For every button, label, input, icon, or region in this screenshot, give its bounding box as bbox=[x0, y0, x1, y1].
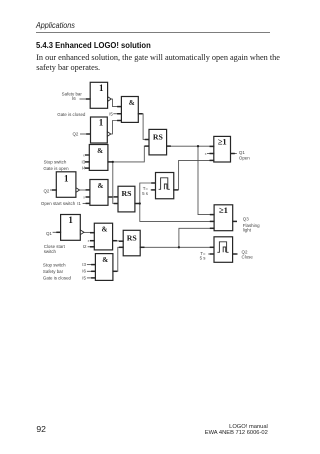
svg-text:&: & bbox=[129, 99, 135, 107]
svg-text:&: & bbox=[97, 147, 103, 155]
wire U3 output to U2 input 3 bbox=[110, 121, 121, 135]
footer manual title bbox=[205, 425, 268, 437]
wire U6 output to Q1 bbox=[231, 153, 237, 155]
svg-text:x: x bbox=[83, 195, 85, 199]
wire I1 to U8 bbox=[83, 202, 90, 204]
wire Q2 to U3 bbox=[80, 133, 91, 135]
svg-text:RS: RS bbox=[127, 233, 137, 242]
parameter label T1 bbox=[142, 186, 149, 196]
input label Gate is open I4 bbox=[43, 166, 86, 171]
node at U9 output branch bbox=[139, 202, 141, 204]
body paragraph bbox=[36, 53, 280, 72]
input label Close start switch I2 bbox=[44, 244, 87, 254]
svg-text:1: 1 bbox=[68, 215, 73, 225]
wire U12 output to U13 S input bbox=[113, 240, 124, 242]
wire U5 output to U6 input 1 bbox=[167, 145, 214, 147]
svg-text:RS: RS bbox=[153, 132, 163, 141]
svg-text:Open: Open bbox=[239, 156, 250, 161]
not-gate U11 bbox=[56, 215, 84, 241]
svg-text:I3: I3 bbox=[82, 262, 86, 267]
svg-text:&: & bbox=[98, 182, 104, 190]
svg-text:Gate is open: Gate is open bbox=[43, 166, 69, 171]
wire U11 output to U12 input 1 bbox=[83, 231, 94, 233]
wire T2 parameter stub bbox=[208, 253, 214, 255]
svg-text:Q2: Q2 bbox=[72, 132, 78, 137]
svg-text:1: 1 bbox=[99, 83, 104, 93]
wire I6 to U14 bbox=[87, 270, 96, 272]
svg-text:Gate is closed: Gate is closed bbox=[57, 112, 86, 117]
svg-text:Q1: Q1 bbox=[239, 150, 245, 155]
svg-text:1: 1 bbox=[64, 173, 69, 183]
wire branch U9 output down to U10 input 2 bbox=[140, 204, 214, 222]
node at U13 output branch bbox=[178, 246, 180, 248]
svg-text:RS: RS bbox=[122, 189, 132, 198]
rs-latch U9 bbox=[114, 186, 140, 212]
and-gate U12 bbox=[90, 223, 117, 250]
wire U1 output to U2 input 1 bbox=[111, 99, 122, 107]
section heading bbox=[36, 40, 151, 50]
wire T1 output to U6 input 3 bbox=[174, 160, 214, 190]
wire T1 parameter stub bbox=[151, 189, 156, 191]
svg-text:Safety bar: Safety bar bbox=[43, 269, 64, 274]
wire I3 to U14 bbox=[87, 264, 96, 266]
svg-text:Q2: Q2 bbox=[242, 249, 248, 254]
svg-text:I3: I3 bbox=[81, 159, 85, 164]
svg-text:I2: I2 bbox=[83, 244, 87, 249]
svg-text:T=: T= bbox=[143, 186, 149, 191]
wire U8 output to U9 S input bbox=[108, 196, 118, 198]
svg-text:I5: I5 bbox=[109, 111, 113, 116]
svg-text:5 s: 5 s bbox=[200, 255, 207, 260]
svg-text:≥1: ≥1 bbox=[219, 205, 228, 215]
wire I6 to U1 bbox=[80, 98, 91, 100]
wire I5 to U2 input 2 bbox=[113, 113, 121, 115]
svg-text:switch: switch bbox=[44, 249, 57, 254]
wire branch U5 output down to U10 input 1 bbox=[198, 146, 214, 214]
wire U7 output to U8 input 1 bbox=[79, 189, 90, 191]
input label Stop switch I3 (U14) bbox=[43, 262, 87, 267]
input label Q2 (U3) bbox=[72, 132, 78, 137]
and-gate U4 bbox=[85, 145, 112, 171]
header rule bbox=[36, 32, 270, 33]
wire I2 to U12 bbox=[88, 246, 95, 248]
svg-text:Stop switch: Stop switch bbox=[44, 160, 67, 165]
input label Q1 (U11) bbox=[46, 231, 52, 236]
svg-text:I4: I4 bbox=[82, 166, 86, 171]
svg-text:light: light bbox=[243, 228, 252, 233]
input label Gate is closed I5 (U14) bbox=[43, 275, 87, 280]
or-gate U10 bbox=[210, 205, 237, 231]
svg-text:Gate is closed: Gate is closed bbox=[43, 276, 72, 281]
and-gate U2 bbox=[117, 97, 143, 123]
input label Safety bar I6 (U14) bbox=[43, 269, 87, 274]
pulse-timer T1 bbox=[151, 173, 178, 199]
svg-text:Q3: Q3 bbox=[243, 217, 249, 222]
rs-latch U13 bbox=[119, 230, 145, 256]
unused input stub x on U4 input 1 bbox=[83, 153, 89, 157]
wire U10 output to Q3 bbox=[233, 220, 237, 222]
input label Open start switch I1 bbox=[41, 201, 82, 206]
svg-text:I6: I6 bbox=[72, 96, 76, 101]
output label Q3 Flashing light bbox=[243, 217, 260, 233]
wire U4 output to U5 R input bbox=[108, 146, 149, 162]
input label Gate is closed I5 bbox=[57, 111, 113, 116]
svg-text:I5: I5 bbox=[82, 275, 86, 280]
svg-text:&: & bbox=[102, 226, 108, 234]
pulse-timer T2 bbox=[210, 237, 237, 262]
output label Q1 Open bbox=[239, 150, 250, 161]
input label Q2 (U7) bbox=[43, 188, 49, 193]
wire T2 output to Q2 bbox=[233, 253, 238, 255]
svg-text:Stop switch: Stop switch bbox=[43, 262, 66, 267]
input label Safety bar I6 bbox=[62, 91, 83, 101]
svg-text:Q1: Q1 bbox=[46, 231, 52, 236]
svg-text:&: & bbox=[102, 256, 108, 264]
svg-text:x: x bbox=[83, 153, 85, 157]
wire I3 to U4 bbox=[86, 161, 89, 163]
svg-text:≥1: ≥1 bbox=[218, 137, 227, 147]
unused input stub x on U6 input 2 bbox=[205, 152, 214, 156]
wire branch U13 output up to U10 input 3 bbox=[179, 228, 214, 247]
wire U2 output to U5 S input bbox=[138, 114, 149, 140]
svg-text:x: x bbox=[88, 239, 90, 243]
svg-text:x: x bbox=[205, 152, 207, 156]
wire I5 to U14 bbox=[87, 277, 96, 279]
output label Q2 Close bbox=[242, 249, 254, 259]
not-gate U3 bbox=[86, 117, 111, 143]
unused input stub x on U12 input 2 bbox=[88, 239, 95, 243]
svg-text:Open start switch: Open start switch bbox=[41, 201, 76, 206]
wire U14 output to U13 R input bbox=[113, 247, 123, 271]
wire Q1 to U11 bbox=[53, 231, 61, 233]
header running title bbox=[36, 21, 75, 30]
and-gate U14 bbox=[91, 254, 117, 281]
input label Stop switch I3 (U4) bbox=[44, 159, 86, 164]
or-gate U6 bbox=[210, 136, 235, 162]
not-gate U7 bbox=[52, 172, 80, 198]
wire U4 output branch down to U9 R input bbox=[113, 162, 118, 204]
svg-text:Close: Close bbox=[242, 255, 254, 260]
unused input stub x on U8 input 2 bbox=[83, 195, 90, 199]
wire I4 to U4 bbox=[86, 167, 89, 169]
and-gate U8 bbox=[86, 180, 113, 206]
svg-text:Q2: Q2 bbox=[43, 188, 49, 193]
wire Q2 to U7 bbox=[50, 189, 56, 191]
node at U4 output branch bbox=[112, 161, 114, 163]
rs-latch U5 bbox=[145, 129, 171, 155]
parameter label T2 bbox=[200, 251, 207, 260]
svg-text:I6: I6 bbox=[82, 269, 86, 274]
node at U5 output branch bbox=[197, 145, 199, 147]
svg-text:5 s: 5 s bbox=[142, 191, 149, 196]
svg-text:1: 1 bbox=[99, 117, 104, 127]
not-gate U1 bbox=[86, 82, 111, 108]
svg-text:I1: I1 bbox=[77, 201, 81, 206]
footer page number bbox=[36, 424, 46, 434]
wire U9 output to T1 trigger bbox=[135, 183, 156, 204]
wire U13 output to T2 trigger bbox=[140, 246, 214, 248]
